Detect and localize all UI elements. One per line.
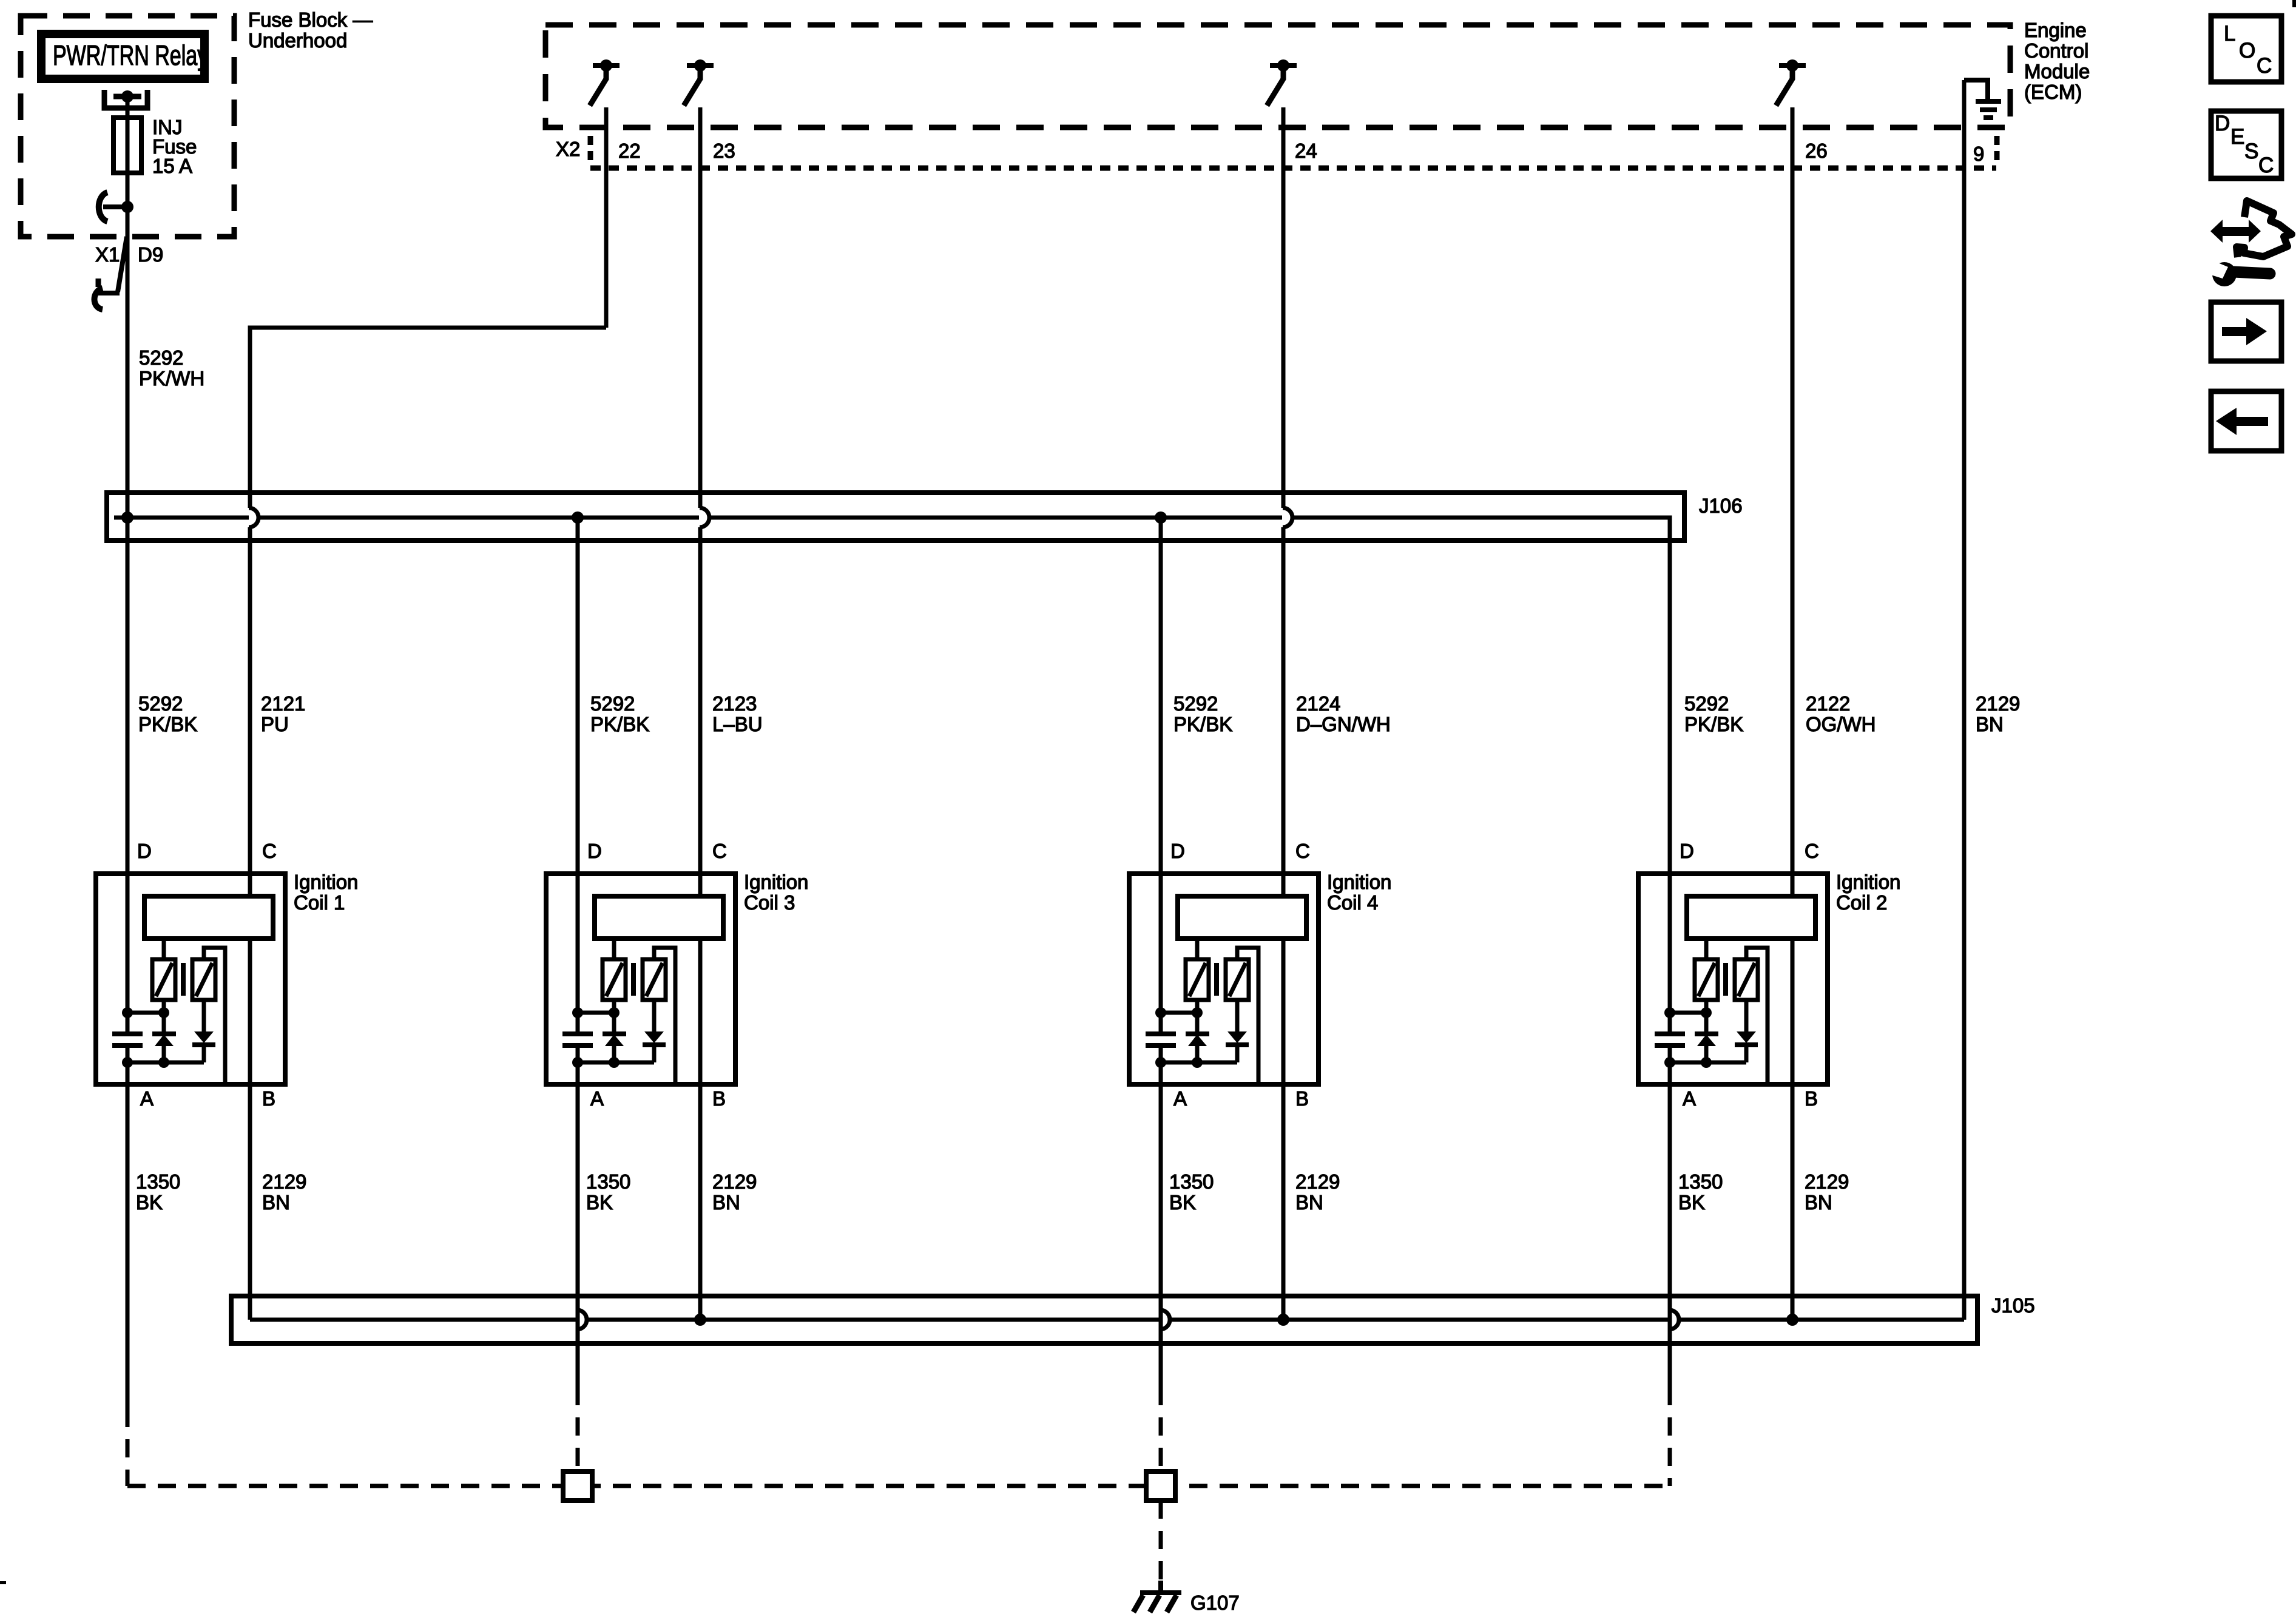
svg-text:PWR/TRN Relay: PWR/TRN Relay xyxy=(53,39,208,71)
svg-text:D9: D9 xyxy=(138,243,163,266)
ignition coil 4 xyxy=(1129,840,1319,1110)
svg-text:D–GN/WH: D–GN/WH xyxy=(1296,713,1391,735)
wire C3 bus to coil3 xyxy=(698,527,703,874)
svg-text:E: E xyxy=(2230,125,2244,149)
node J105 B2 xyxy=(1786,1314,1798,1326)
svg-text:1350: 1350 xyxy=(136,1170,180,1193)
node fuse output xyxy=(121,201,133,213)
connector X2 separator xyxy=(588,136,593,160)
svg-text:Ignition: Ignition xyxy=(744,871,808,893)
wire B3 2129 BN xyxy=(698,1084,703,1320)
svg-text:Control: Control xyxy=(2024,39,2088,62)
wire 2121 jog horizontal xyxy=(250,328,606,508)
switch driver pin 23 xyxy=(687,63,714,68)
node J105 B4 xyxy=(1277,1314,1289,1326)
wire C1 bus to coil1 xyxy=(248,527,252,874)
svg-text:5292: 5292 xyxy=(590,692,635,715)
ground bus dashed xyxy=(127,1484,1670,1488)
svg-text:BK: BK xyxy=(1678,1191,1705,1214)
icon harness profile xyxy=(2237,201,2292,257)
fuse INJ 15A xyxy=(113,118,141,173)
hop at A3 xyxy=(577,1310,587,1329)
clip fuse output terminal xyxy=(99,192,107,221)
relay output terminal bracket xyxy=(104,90,147,108)
wire A3 1350 BK xyxy=(576,1084,580,1387)
svg-text:22: 22 xyxy=(618,140,641,162)
wire 5292 PK/WH xyxy=(126,352,130,518)
hop at C1 xyxy=(249,508,258,527)
svg-text:5292: 5292 xyxy=(1173,692,1218,715)
svg-text:15 A: 15 A xyxy=(152,155,192,177)
svg-text:2121: 2121 xyxy=(261,692,305,715)
svg-text:BK: BK xyxy=(136,1191,163,1214)
svg-text:1350: 1350 xyxy=(1169,1170,1214,1193)
node J106 D3 xyxy=(572,511,584,524)
svg-text:C: C xyxy=(2257,54,2272,78)
wire A1 1350 BK xyxy=(126,1084,130,1409)
wire pin 24 down xyxy=(1281,107,1286,508)
svg-text:24: 24 xyxy=(1295,140,1317,162)
svg-text:BN: BN xyxy=(262,1191,290,1214)
wire to ground G107 xyxy=(1159,1501,1163,1581)
wire pin 26 down xyxy=(1791,107,1795,874)
svg-text:Ignition: Ignition xyxy=(1836,871,1900,893)
svg-text:26: 26 xyxy=(1805,140,1828,162)
svg-text:Coil 1: Coil 1 xyxy=(294,891,345,914)
svg-text:D: D xyxy=(2215,112,2230,135)
node J106 D1 xyxy=(121,511,133,524)
node relay output xyxy=(121,90,133,103)
wire A4 1350 BK xyxy=(1159,1084,1163,1387)
svg-text:2129: 2129 xyxy=(262,1170,306,1193)
node J106 D4 xyxy=(1155,511,1167,524)
switch driver pin 22 xyxy=(593,63,620,68)
splice square S1 xyxy=(563,1471,592,1501)
svg-text:PU: PU xyxy=(261,713,289,735)
svg-text:Ignition: Ignition xyxy=(1327,871,1391,893)
ground G107 symbol xyxy=(1158,1581,1163,1593)
icon harness double arrow xyxy=(2210,220,2261,243)
svg-text:Module: Module xyxy=(2024,60,2090,83)
svg-text:Coil 4: Coil 4 xyxy=(1327,891,1378,914)
svg-text:5292: 5292 xyxy=(1684,692,1729,715)
svg-text:PK/BK: PK/BK xyxy=(590,713,649,735)
wire pin 23 down xyxy=(698,107,703,508)
svg-text:2129: 2129 xyxy=(1805,1170,1849,1193)
icon wrench xyxy=(2234,272,2270,274)
wire pin 22 to jog xyxy=(604,107,609,328)
svg-text:PK/WH: PK/WH xyxy=(139,367,204,390)
ignition coil 2 xyxy=(1638,840,1828,1110)
icon LOC box xyxy=(2211,16,2281,82)
svg-text:2129: 2129 xyxy=(1295,1170,1340,1193)
hop at A4 xyxy=(1160,1310,1170,1329)
svg-text:9: 9 xyxy=(1973,143,1984,165)
svg-text:S: S xyxy=(2244,140,2258,163)
wire through X1 D9 xyxy=(126,207,130,352)
wire C4 bus to coil4 xyxy=(1281,527,1286,874)
svg-text:O: O xyxy=(2239,39,2255,62)
node J105 B3 xyxy=(694,1314,706,1326)
svg-text:BN: BN xyxy=(1805,1191,1832,1214)
svg-text:L: L xyxy=(2224,22,2235,46)
hop at C3 xyxy=(700,508,709,527)
svg-text:Underhood: Underhood xyxy=(248,29,347,52)
svg-text:X1: X1 xyxy=(95,243,120,266)
ignition coil 1 xyxy=(96,840,285,1110)
wire relay to fuse xyxy=(126,96,130,119)
wire B1 2129 BN xyxy=(248,1084,252,1320)
ignition coil 3 xyxy=(546,840,735,1110)
svg-text:Ignition: Ignition xyxy=(294,871,358,893)
svg-text:2123: 2123 xyxy=(712,692,757,715)
svg-text:Coil 3: Coil 3 xyxy=(744,891,795,914)
svg-text:J106: J106 xyxy=(1699,495,1743,517)
bus J105 internal wire xyxy=(250,1318,1964,1322)
ECM connector dotted line xyxy=(590,166,1996,171)
wire B2 2129 BN xyxy=(1791,1084,1795,1320)
hop at A2 xyxy=(1669,1310,1679,1329)
wire A2 1350 BK xyxy=(1668,1084,1672,1387)
svg-text:C: C xyxy=(2258,154,2274,177)
svg-text:J105: J105 xyxy=(1991,1294,2035,1317)
svg-text:BN: BN xyxy=(1976,713,2004,735)
svg-text:23: 23 xyxy=(713,140,735,162)
svg-text:PK/BK: PK/BK xyxy=(1173,713,1232,735)
svg-text:L–BU: L–BU xyxy=(712,713,763,735)
wire pin 9 down 2129 BN xyxy=(1962,80,1967,1320)
svg-text:2129: 2129 xyxy=(712,1170,757,1193)
svg-text:BN: BN xyxy=(1295,1191,1323,1214)
svg-text:X2: X2 xyxy=(556,138,580,160)
wire D1 bus to coil1 xyxy=(126,518,130,874)
relay K PWR/TRN xyxy=(41,34,204,79)
svg-text:1350: 1350 xyxy=(1678,1170,1723,1193)
svg-text:BK: BK xyxy=(586,1191,613,1214)
svg-text:2122: 2122 xyxy=(1806,692,1850,715)
hop at C4 xyxy=(1283,508,1292,527)
svg-text:BN: BN xyxy=(712,1191,740,1214)
svg-text:PK/BK: PK/BK xyxy=(138,713,197,735)
wire D4 bus to coil4 xyxy=(1159,518,1163,874)
ECM internal ground xyxy=(1964,80,1988,99)
svg-text:(ECM): (ECM) xyxy=(2024,81,2082,103)
svg-text:BK: BK xyxy=(1169,1191,1196,1214)
icon arrow right box xyxy=(2211,302,2281,361)
svg-text:1350: 1350 xyxy=(586,1170,630,1193)
connector right separator xyxy=(1994,136,2000,160)
svg-text:Fuse Block —: Fuse Block — xyxy=(248,8,373,31)
splice square S2 xyxy=(1146,1471,1175,1501)
bus J106 internal wire xyxy=(114,518,1670,874)
clip harness side xyxy=(96,279,101,287)
svg-text:Coil 2: Coil 2 xyxy=(1836,891,1887,914)
page corner marks xyxy=(2292,0,2296,7)
svg-text:Engine: Engine xyxy=(2024,19,2087,41)
svg-text:5292: 5292 xyxy=(139,346,183,369)
wire fuse to clip xyxy=(126,173,130,207)
svg-text:G107: G107 xyxy=(1190,1592,1240,1614)
svg-text:2129: 2129 xyxy=(1976,692,2020,715)
svg-text:OG/WH: OG/WH xyxy=(1806,713,1876,735)
ECM dashed box xyxy=(545,25,2010,127)
wire B4 2129 BN xyxy=(1281,1084,1286,1320)
icon arrow left box xyxy=(2211,391,2281,451)
splice bus J105 xyxy=(231,1296,1977,1343)
svg-text:2124: 2124 xyxy=(1296,692,1340,715)
fuse block underhood dashed box xyxy=(21,16,234,237)
svg-text:PK/BK: PK/BK xyxy=(1684,713,1743,735)
svg-text:5292: 5292 xyxy=(138,692,183,715)
wire D3 bus to coil3 xyxy=(576,518,580,874)
splice bus J106 xyxy=(107,493,1684,541)
icon DESC box xyxy=(2211,111,2281,178)
switch driver pin 24 xyxy=(1270,63,1297,68)
connector X1 D9 slash xyxy=(118,237,127,292)
switch driver pin 26 xyxy=(1779,63,1806,68)
